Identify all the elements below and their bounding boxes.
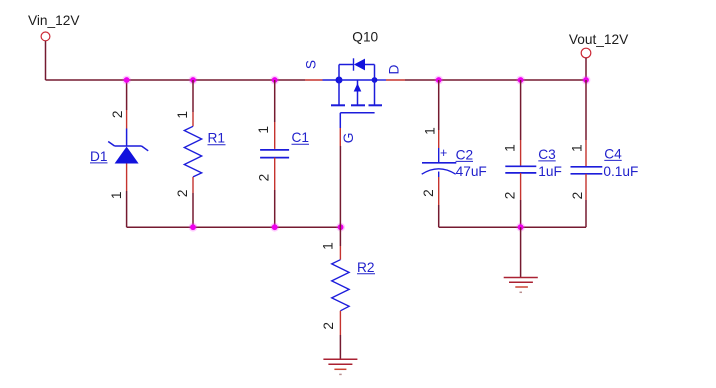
label R2 (357, 260, 375, 275)
resistor R1 (184, 126, 201, 177)
svg-text:0.1uF: 0.1uF (603, 164, 638, 179)
label R1 (208, 131, 226, 146)
wire bottom rail left (127, 226, 341, 228)
node junction D1 top (122, 76, 131, 85)
capacitor C1 (260, 150, 289, 158)
wire R1 branch upper (192, 80, 194, 126)
wire R1 branch lower (192, 177, 194, 227)
wire C1 branch upper (274, 80, 276, 149)
label D1 (90, 149, 108, 164)
svg-text:R1: R1 (208, 131, 226, 146)
svg-text:C2: C2 (456, 147, 474, 162)
svg-text:1: 1 (256, 126, 271, 134)
svg-text:2: 2 (256, 174, 271, 182)
svg-text:+: + (440, 146, 447, 160)
svg-text:C4: C4 (604, 146, 622, 161)
wire Vout vertical (585, 58, 587, 80)
node junction C4 top / Vout (582, 76, 591, 85)
svg-text:Vin_12V: Vin_12V (28, 13, 80, 28)
node junction C1 top (270, 76, 279, 85)
node junction C3 top (516, 76, 525, 85)
svg-text:G: G (341, 133, 356, 144)
svg-text:C1: C1 (292, 130, 310, 145)
svg-text:2: 2 (321, 322, 336, 330)
svg-text:2: 2 (110, 110, 125, 118)
svg-text:2: 2 (503, 192, 518, 200)
wire C4 branch lower (585, 174, 587, 227)
svg-text:D1: D1 (90, 149, 108, 164)
svg-text:S: S (304, 60, 319, 69)
wire D1 branch lower (126, 164, 128, 228)
wire C3 branch lower (520, 173, 522, 227)
node junction R1 bottom (189, 223, 198, 232)
node junction C2 top (434, 76, 443, 85)
wire Vin vertical (45, 41, 47, 80)
wire ground drop (520, 227, 522, 277)
wire C2 branch lower (438, 172, 440, 228)
svg-text:1uF: 1uF (538, 164, 562, 179)
svg-text:1: 1 (109, 191, 124, 199)
ground below C3 (504, 278, 538, 293)
wire D1 branch upper (126, 80, 128, 129)
label C3 (538, 147, 556, 162)
label C2 (456, 147, 474, 162)
wire C3 branch upper (520, 80, 522, 166)
svg-text:2: 2 (570, 192, 585, 200)
diode D1 (zener) (108, 129, 148, 164)
label C4 (604, 146, 622, 161)
wire top rail right (Q10 drain to Vout) (405, 79, 586, 81)
port Vin_12V (41, 32, 50, 41)
wire C1 branch lower (274, 158, 276, 228)
svg-text:2: 2 (421, 189, 436, 197)
svg-text:C3: C3 (538, 147, 556, 162)
svg-text:1: 1 (570, 144, 585, 152)
label C1 (292, 130, 310, 145)
pin Q10 S lead (305, 79, 323, 81)
wire R2 upper (339, 227, 341, 260)
transistor Q10 (P-MOSFET with body diode) (331, 58, 382, 128)
node junction R1 top (189, 76, 198, 85)
svg-text:D: D (386, 65, 401, 75)
capacitor C3 (505, 166, 536, 173)
node junction C1 bottom (270, 223, 279, 232)
ground below R2 (323, 359, 357, 374)
svg-text:1: 1 (423, 127, 438, 135)
wire R2 lower (339, 311, 341, 359)
pin Q10 G lead (339, 128, 341, 146)
svg-text:Vout_12V: Vout_12V (569, 32, 629, 47)
wire C4 branch upper (585, 80, 587, 167)
svg-text:Q10: Q10 (352, 30, 378, 45)
svg-text:1: 1 (502, 144, 517, 152)
svg-text:1: 1 (320, 242, 335, 250)
svg-text:R2: R2 (357, 260, 375, 275)
wire C2 branch upper (438, 80, 440, 163)
resistor R2 (332, 260, 349, 311)
svg-text:47uF: 47uF (456, 164, 487, 179)
svg-text:1: 1 (175, 111, 190, 119)
svg-text:2: 2 (175, 189, 190, 197)
capacitor C4 (571, 167, 603, 174)
node junction ground (516, 223, 525, 232)
port Vout_12V (581, 48, 591, 58)
wire gate to bottom rail (339, 146, 341, 227)
capacitor C2 (polarized) (422, 146, 457, 174)
wire top rail left (Vin to Q10 source) (46, 79, 306, 81)
wire bottom rail right (439, 226, 586, 228)
pin Q10 D lead (375, 79, 387, 81)
node junction R2 top / gate (336, 223, 345, 232)
